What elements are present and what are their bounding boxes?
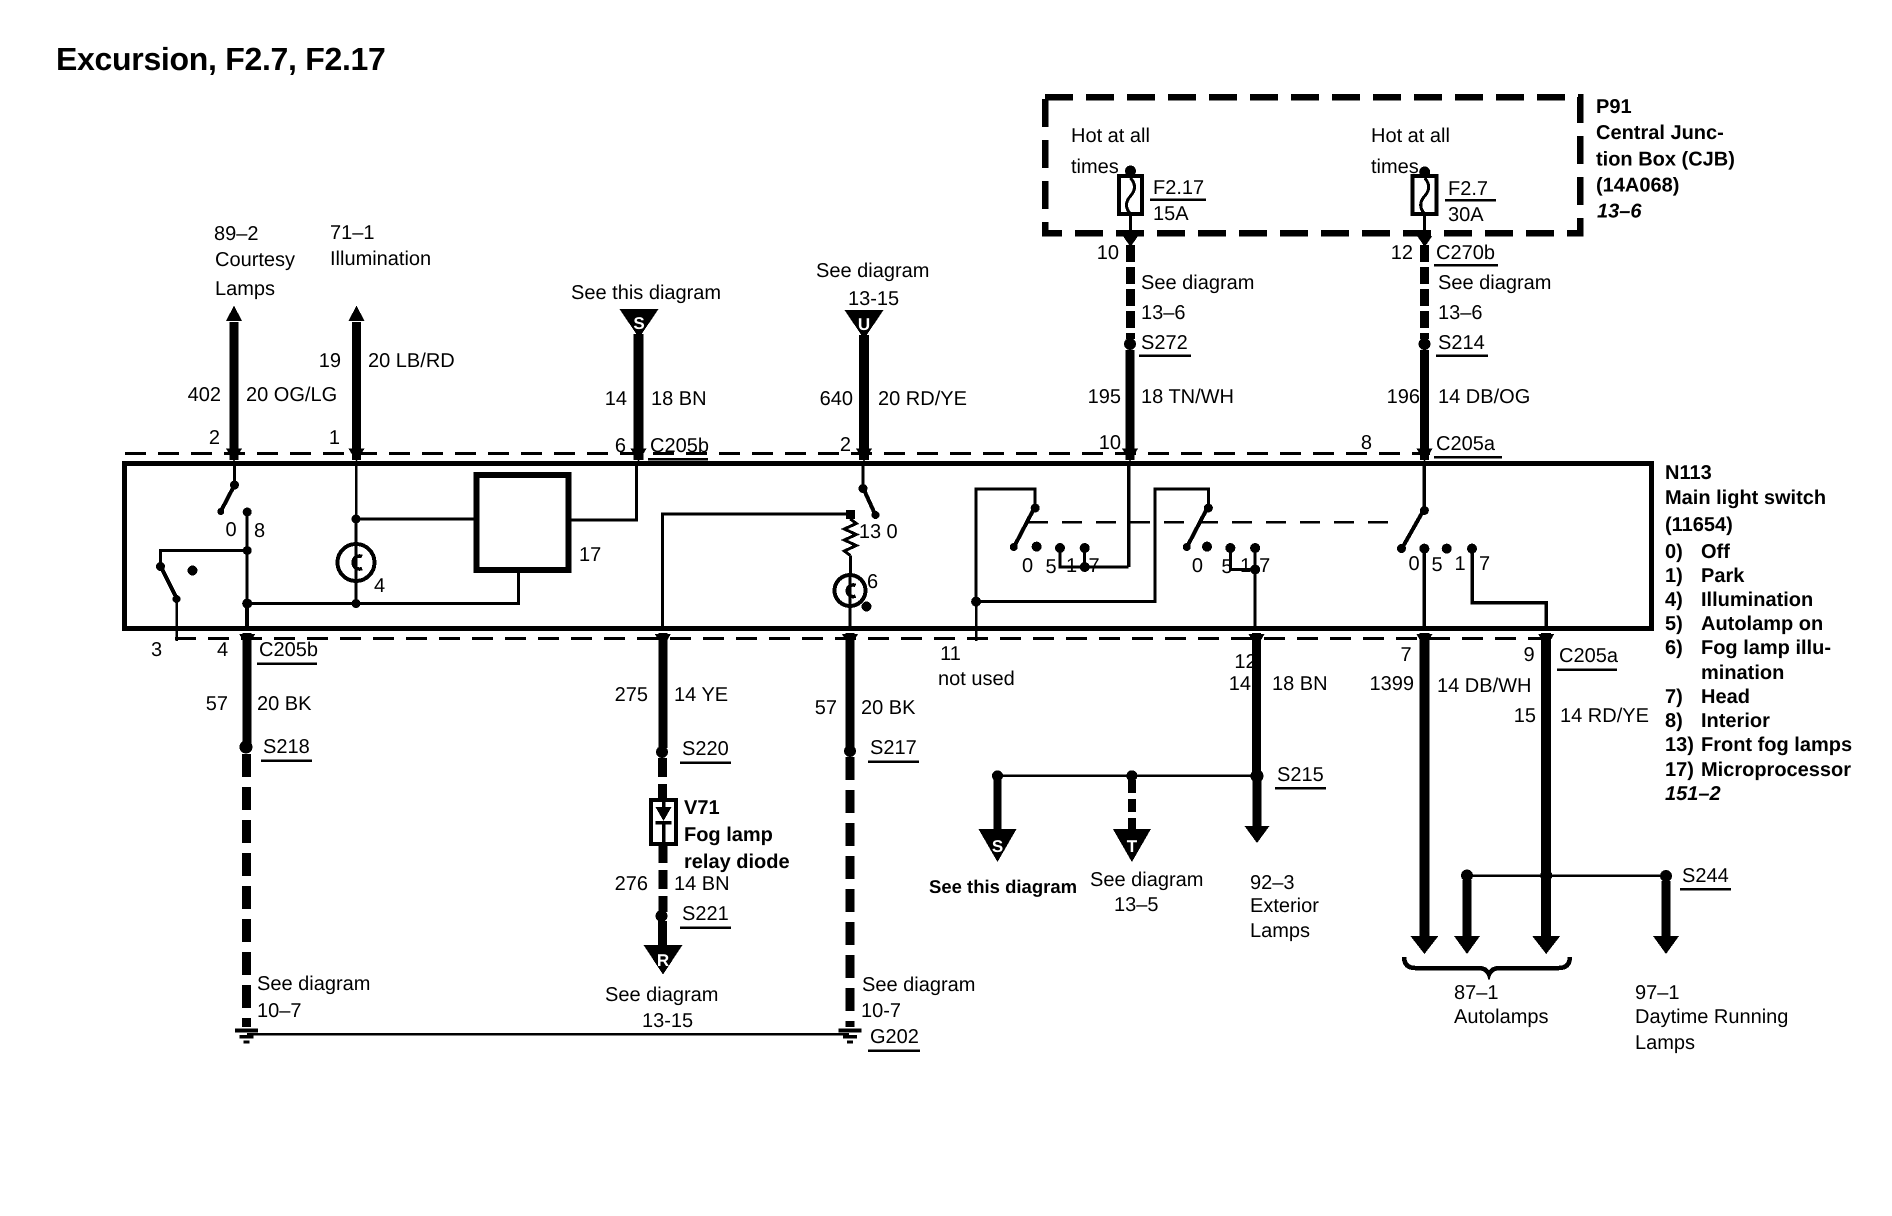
wire circuit 14 18 BN (pin 12) [1252, 633, 1261, 774]
wire switch1 feed left vertical [976, 489, 1035, 602]
svg-text:89–2: 89–2 [214, 223, 259, 245]
label See this diagram (top) [571, 282, 721, 304]
pin label 8 [1361, 432, 1372, 454]
pin label 11 not used [938, 643, 1015, 690]
arrowhead circuit 196 from CJB pin 12 [1417, 236, 1432, 247]
value label F2.7 30A [1445, 178, 1496, 226]
arrowhead pin 2 fog into N113 [856, 449, 872, 463]
wire contact 8 down [246, 512, 249, 604]
svg-text:S: S [633, 314, 644, 333]
svg-text:6: 6 [867, 571, 878, 593]
main light switch N113 outline [125, 464, 1652, 629]
value label 195 18 TN/WH [1088, 386, 1234, 408]
svg-text:7: 7 [1479, 553, 1490, 575]
wire switch2 contact bracket [1230, 548, 1255, 570]
svg-text:Autolamp on: Autolamp on [1701, 613, 1823, 635]
svg-text:relay diode: relay diode [684, 851, 790, 873]
connector label C205b (bottom) [257, 639, 318, 664]
pin label 1 [329, 427, 340, 449]
svg-text:S217: S217 [870, 737, 917, 759]
svg-text:Fog lamp illu-: Fog lamp illu- [1701, 637, 1831, 659]
svg-text:Central Junc-: Central Junc- [1596, 122, 1724, 144]
svg-text:F2.17: F2.17 [1153, 177, 1204, 199]
svg-text:F2.7: F2.7 [1448, 178, 1488, 200]
value label 14 18 BN [605, 388, 707, 410]
switch park lamps (pivot) [1010, 504, 1040, 552]
svg-text:10: 10 [1097, 242, 1119, 264]
node contacts switch 2 [1202, 542, 1260, 553]
label 71-1 Illumination [330, 222, 431, 270]
arrowhead pin 2 into N113 [226, 449, 242, 463]
junction switch2 bracket [1250, 565, 1260, 575]
svg-text:G202: G202 [870, 1026, 919, 1048]
ground G202 [839, 1026, 921, 1051]
dashed connector line C205 below N113 [175, 637, 1545, 640]
svg-text:Fog lamp: Fog lamp [684, 824, 773, 846]
svg-text:402: 402 [188, 384, 221, 406]
label See diagram 13-5 [1090, 869, 1203, 916]
arrow up courtesy lamps [226, 306, 242, 322]
svg-text:See diagram: See diagram [1090, 869, 1203, 891]
label 87-1 Autolamps [1454, 982, 1549, 1028]
arrow pin 9 down [1532, 936, 1560, 954]
svg-text:2: 2 [840, 434, 851, 456]
contact labels 0 5 1 7 (switch 2) [1192, 555, 1270, 578]
svg-text:Lamps: Lamps [1635, 1032, 1695, 1054]
contact label 0 8 (interior switch) [225, 519, 265, 542]
label N113 Main light switch legend [1665, 462, 1852, 805]
svg-text:57: 57 [206, 693, 228, 715]
wire pin 3 stub [175, 599, 178, 641]
svg-text:Excursion, F2.7, F2.17: Excursion, F2.7, F2.17 [56, 41, 386, 77]
svg-text:14 YE: 14 YE [674, 684, 728, 706]
svg-text:times: times [1071, 156, 1119, 178]
value label 275 14 YE [615, 684, 729, 706]
svg-text:20 RD/YE: 20 RD/YE [878, 388, 967, 410]
label 97-1 Daytime Running Lamps [1635, 982, 1788, 1054]
svg-text:1: 1 [1240, 555, 1251, 577]
dashed connector line C205 above N113 [125, 452, 1430, 455]
svg-text:See diagram: See diagram [1438, 272, 1551, 294]
svg-text:Main light switch: Main light switch [1665, 487, 1826, 509]
svg-text:R: R [657, 951, 669, 970]
wire circuit 195 18 TN/WH (dashed segment above S272) [1126, 245, 1135, 339]
svg-text:14 RD/YE: 14 RD/YE [1560, 705, 1649, 727]
value label 402 20 OG/LG [188, 384, 338, 406]
svg-text:18 BN: 18 BN [1272, 673, 1328, 695]
svg-text:20 BK: 20 BK [257, 693, 312, 715]
pin label 10 (CJB side) [1097, 242, 1119, 264]
svg-text:10: 10 [1099, 432, 1121, 454]
value label 640 20 RD/YE [820, 388, 967, 410]
wire contact 7 to pin 9 [1472, 549, 1546, 630]
svg-text:(11654): (11654) [1665, 514, 1733, 536]
lamp illumination (symbol 4) [338, 519, 375, 604]
svg-text:151–2: 151–2 [1665, 783, 1721, 805]
wire bus to microprocessor bottom [247, 570, 519, 604]
svg-text:1): 1) [1665, 565, 1683, 587]
wire fog illumination feed [663, 514, 846, 630]
splice S220 [656, 738, 731, 763]
svg-text:S244: S244 [1682, 865, 1729, 887]
svg-text:10-7: 10-7 [861, 1000, 901, 1022]
svg-text:19: 19 [319, 350, 341, 372]
junction contact 8 / battery saver branch [243, 546, 252, 555]
svg-text:87–1: 87–1 [1454, 982, 1499, 1004]
svg-text:(14A068): (14A068) [1596, 175, 1679, 197]
wire splice rail S244 [1467, 874, 1666, 877]
svg-text:See diagram: See diagram [605, 984, 718, 1006]
wire S220 to diode [658, 758, 667, 800]
pin label 6 / connector C205b [615, 435, 709, 459]
pin label 12 (CJB side) [1391, 242, 1413, 264]
pin label 10 (switch side) [1099, 432, 1121, 454]
switch head lamps (pivot pin 8) [1397, 506, 1429, 553]
connector label C270b [1434, 242, 1498, 265]
svg-text:C205a: C205a [1559, 645, 1619, 667]
svg-text:13): 13) [1665, 734, 1694, 756]
wire circuit 15 14 RD/YE (pin 9) [1541, 633, 1551, 938]
wire pin 4 inside [245, 604, 249, 631]
svg-text:12: 12 [1391, 242, 1413, 264]
svg-text:S215: S215 [1277, 764, 1324, 786]
splice S218 [240, 736, 313, 761]
wire circuit 640 20 RD/YE [859, 335, 869, 460]
svg-text:S272: S272 [1141, 332, 1188, 354]
junction switch1 bracket [1080, 562, 1090, 572]
connector label C205a (top) [1434, 433, 1502, 457]
svg-text:9: 9 [1523, 644, 1534, 666]
wire circuit 57 20 BK (pin 4) [243, 633, 252, 743]
label Hot at all times (left) [1071, 125, 1150, 178]
splice S217 [844, 737, 919, 762]
svg-text:275: 275 [615, 684, 648, 706]
svg-text:7: 7 [1400, 644, 1411, 666]
splice S244 [1660, 865, 1731, 889]
svg-text:See diagram: See diagram [862, 974, 975, 996]
label See diagram 10-7 (right) [861, 974, 975, 1022]
node feed dot fuse F2.17 [1125, 166, 1136, 177]
node S244 left dot [1461, 870, 1473, 882]
wire resistor to lamp [849, 556, 852, 577]
svg-text:Lamps: Lamps [215, 278, 275, 300]
svg-text:13–6: 13–6 [1597, 201, 1642, 223]
arrowhead circuit 195 from CJB pin 10 [1123, 236, 1138, 247]
pin label 2 (courtesy) [209, 427, 220, 449]
wire switch1 contact bracket [1060, 548, 1129, 567]
svg-text:8: 8 [254, 520, 265, 542]
wire circuit 402 20 OG/LG [230, 322, 239, 460]
label Hot at all times (right) [1371, 125, 1450, 178]
svg-text:tion Box (CJB): tion Box (CJB) [1596, 149, 1735, 171]
wire S221 to connector R [658, 921, 667, 948]
arrowhead pin 4 out [239, 634, 255, 648]
arrow exterior lamps [1245, 826, 1270, 843]
svg-text:71–1: 71–1 [330, 222, 375, 244]
svg-text:13-15: 13-15 [848, 288, 899, 310]
svg-text:4: 4 [374, 575, 385, 597]
svg-text:S220: S220 [682, 738, 729, 760]
wire circuit 57 20 BK (pin 6) [846, 633, 855, 747]
wire S215 to exterior lamps arrow [1253, 780, 1262, 828]
switch front fog lamps (pivot pin 2) [859, 484, 880, 519]
svg-text:3: 3 [151, 639, 162, 661]
arrowhead pin 10 into N113 [1122, 449, 1138, 463]
svg-text:14 BN: 14 BN [674, 873, 730, 895]
value label 57 20 BK (pin 4) [206, 693, 312, 715]
node lamp lower right dot [862, 602, 872, 612]
pin label 2 (fog) [840, 434, 851, 456]
arrowhead pin 8 into N113 [1417, 449, 1433, 463]
svg-text:0: 0 [1192, 555, 1203, 577]
svg-text:2: 2 [209, 427, 220, 449]
svg-text:17: 17 [579, 544, 601, 566]
pin label 4 [217, 639, 228, 661]
connector label C205a (bottom) [1557, 645, 1619, 670]
value label 19 20 LB/RD [319, 350, 455, 372]
svg-text:92–3: 92–3 [1250, 872, 1295, 894]
switch battery saver (pivot) [156, 562, 181, 603]
svg-text:14 DB/OG: 14 DB/OG [1438, 386, 1530, 408]
svg-text:Hot at all: Hot at all [1071, 125, 1150, 147]
wire circuit 19 20 LB/RD [352, 322, 361, 460]
central junction box P91 dashed outline [1045, 97, 1580, 233]
label 4 (lamp) [374, 575, 385, 597]
arrowhead pin 9 out [1538, 634, 1554, 648]
svg-text:8): 8) [1665, 710, 1683, 732]
splice S215 [1251, 764, 1327, 788]
wire branch to interior switch pivot [161, 551, 248, 565]
value label 57 20 BK (pin 6) [815, 697, 916, 719]
svg-text:Off: Off [1701, 541, 1730, 563]
arrowhead pin 5 out [655, 634, 671, 648]
label See diagram 13-15 (top) [816, 260, 929, 310]
svg-text:V71: V71 [684, 797, 720, 819]
switch exterior lamps (pivot) [1183, 504, 1213, 552]
wire pin 2 stub inside N113 [233, 464, 236, 482]
arrow daytime running down [1653, 936, 1679, 954]
svg-text:6): 6) [1665, 637, 1683, 659]
pin label 9 [1523, 644, 1534, 666]
contact labels 0 5 1 7 (switch 1) [1022, 555, 1100, 578]
node S244 middle dot (on pin 9 wire) [1540, 870, 1552, 882]
arrowhead pin 6 into N113 [631, 449, 647, 463]
svg-text:S221: S221 [682, 903, 729, 925]
wire illumination node to microprocessor [356, 518, 476, 521]
svg-text:0: 0 [886, 521, 897, 543]
wire pin 11 stub [975, 602, 978, 641]
label V71 Fog lamp relay diode [684, 797, 790, 873]
value label F2.17 15A [1150, 177, 1206, 225]
svg-text:Courtesy: Courtesy [215, 249, 295, 271]
wire circuit 14 18 BN [634, 334, 644, 460]
arrowhead pin 6 out [842, 634, 858, 648]
value label 276 14 BN [615, 873, 730, 895]
wire pin 4 dashed to ground [242, 754, 251, 1027]
node resistor top [846, 510, 855, 519]
svg-text:0: 0 [225, 519, 236, 541]
svg-text:17): 17) [1665, 759, 1694, 781]
svg-text:13: 13 [859, 521, 881, 543]
label 17 [579, 544, 601, 566]
wire switch1 output bus [976, 489, 1208, 602]
svg-text:0: 0 [1408, 553, 1419, 575]
wire pin 1 stub inside N113 [355, 464, 358, 519]
wire circuit 275 14 YE (pin 5) [658, 633, 667, 748]
arrowhead pin 7 out [1416, 634, 1432, 648]
node S dot [992, 770, 1003, 781]
label See this diagram (bottom) [929, 876, 1077, 897]
svg-text:14: 14 [1229, 673, 1251, 695]
node T dot [1126, 770, 1137, 781]
svg-text:S218: S218 [263, 736, 310, 758]
label See diagram 13-6 (left) [1141, 272, 1254, 324]
wire to connector S [994, 780, 1002, 831]
splice S272 [1124, 332, 1191, 356]
svg-text:N113: N113 [1665, 462, 1712, 484]
svg-text:97–1: 97–1 [1635, 982, 1680, 1004]
svg-text:Head: Head [1701, 686, 1750, 708]
node contact 8 [243, 508, 252, 517]
arrowhead pin 1 into N113 [349, 449, 365, 463]
svg-text:C205a: C205a [1436, 433, 1496, 455]
fuse F2.7 [1413, 176, 1437, 214]
svg-text:10–7: 10–7 [257, 1000, 302, 1022]
label See diagram 13-15 (bottom) [605, 984, 718, 1032]
wire ground rail [247, 1033, 849, 1036]
splice S221 [656, 903, 732, 928]
diode V71 fog lamp relay diode [651, 800, 676, 844]
splice S214 [1419, 332, 1489, 356]
off-page connector S (bottom) [979, 829, 1017, 862]
svg-text:See diagram: See diagram [1141, 272, 1254, 294]
switch interior lamps (pivot pin 2) [217, 481, 239, 516]
svg-text:S: S [992, 837, 1003, 856]
contact label 13 0 (fog switch) [859, 521, 898, 543]
svg-text:T: T [1127, 837, 1138, 856]
node feed dot fuse F2.7 [1419, 167, 1430, 178]
label See diagram 10-7 (left) [257, 973, 370, 1022]
svg-text:Front fog lamps: Front fog lamps [1701, 734, 1852, 756]
svg-text:5: 5 [1431, 554, 1442, 576]
svg-text:11: 11 [940, 643, 961, 665]
wire microprocessor to pin 6 [569, 464, 637, 520]
title [56, 41, 386, 77]
svg-text:195: 195 [1088, 386, 1121, 408]
svg-text:7): 7) [1665, 686, 1683, 708]
arrow up illumination [349, 306, 365, 322]
junction lamp bottom node [352, 599, 361, 608]
wire circuit 196 14 DB/OG (dashed segment above S214) [1420, 245, 1429, 339]
wire splice rail S215 [998, 775, 1257, 778]
junction illumination node [352, 515, 361, 524]
svg-text:Illumination: Illumination [1701, 589, 1813, 611]
svg-text:0: 0 [1022, 555, 1033, 577]
svg-text:4): 4) [1665, 589, 1683, 611]
wire circuit 1399 14 DB/WH (pin 7) [1419, 633, 1429, 938]
junction switch1 output [971, 597, 981, 607]
wire pin 7 inside [1423, 549, 1427, 630]
node contacts switch 3 [1419, 544, 1477, 554]
pin label 3 [151, 639, 162, 661]
resistor fog lamp illumination [844, 519, 856, 556]
svg-text:C205b: C205b [259, 639, 318, 661]
wire fuse F2.17 to CJB edge [1129, 214, 1132, 233]
svg-text:Lamps: Lamps [1250, 920, 1310, 942]
svg-text:20 OG/LG: 20 OG/LG [246, 384, 337, 406]
arrow autolamp branch down [1454, 936, 1480, 954]
svg-text:Interior: Interior [1701, 710, 1770, 732]
ground (left) [235, 1031, 258, 1043]
svg-text:1399: 1399 [1370, 673, 1415, 695]
contact labels 0 5 1 7 (switch 3) [1408, 553, 1490, 576]
svg-text:See diagram: See diagram [257, 973, 370, 995]
svg-text:13–5: 13–5 [1114, 894, 1159, 916]
svg-text:7: 7 [1259, 555, 1270, 577]
wire circuit 196 below S214 [1420, 350, 1429, 460]
svg-text:8: 8 [1361, 432, 1372, 454]
label See diagram 13-6 (right) [1438, 272, 1551, 324]
wire pin 2 fog stub inside N113 [862, 464, 865, 485]
wire fuse F2.7 to CJB edge [1423, 214, 1426, 233]
microprocessor box 17 [477, 475, 569, 570]
svg-text:20 BK: 20 BK [861, 697, 916, 719]
svg-text:15: 15 [1514, 705, 1536, 727]
value label 15 14 RD/YE [1514, 705, 1649, 727]
svg-text:not used: not used [938, 668, 1015, 690]
svg-text:57: 57 [815, 697, 837, 719]
svg-text:Hot at all: Hot at all [1371, 125, 1450, 147]
svg-text:mination: mination [1701, 662, 1784, 684]
svg-text:See this diagram: See this diagram [929, 876, 1077, 897]
svg-text:15A: 15A [1153, 203, 1189, 225]
fuse F2.17 [1119, 176, 1142, 214]
wire daytime running branch [1662, 881, 1671, 938]
svg-text:13–6: 13–6 [1438, 302, 1483, 324]
pin label 12 [1234, 651, 1256, 673]
svg-text:1: 1 [329, 427, 340, 449]
off-page connector U (top) [845, 310, 884, 339]
svg-text:P91: P91 [1596, 96, 1632, 118]
wire diode to S221 [659, 844, 668, 912]
svg-text:Park: Park [1701, 565, 1745, 587]
svg-text:640: 640 [820, 388, 853, 410]
svg-text:See this diagram: See this diagram [571, 282, 721, 304]
wire autolamp branch [1463, 880, 1472, 938]
linkage dashed (switch gang) [1028, 521, 1400, 524]
wire pin 8 stub inside N113 [1423, 464, 1427, 507]
wire pin 10 inside N113 [1127, 464, 1131, 567]
svg-text:Autolamps: Autolamps [1454, 1006, 1549, 1028]
label P91 Central Junction Box [1596, 96, 1735, 223]
lamp fog illumination (symbol 6) [835, 575, 866, 630]
svg-text:30A: 30A [1448, 204, 1484, 226]
svg-text:4: 4 [217, 639, 228, 661]
svg-text:13-15: 13-15 [642, 1010, 693, 1032]
node contact (floating) [188, 566, 198, 576]
svg-text:0): 0) [1665, 541, 1683, 563]
svg-text:14: 14 [605, 388, 627, 410]
svg-text:Microprocessor: Microprocessor [1701, 759, 1851, 781]
svg-text:13–6: 13–6 [1141, 302, 1186, 324]
svg-text:S214: S214 [1438, 332, 1485, 354]
off-page connector R [644, 945, 683, 975]
svg-text:5: 5 [1045, 556, 1056, 578]
svg-text:U: U [858, 315, 870, 334]
off-page connector T [1113, 829, 1151, 862]
pin label 7 [1400, 644, 1411, 666]
arrowhead pin 12 out [1249, 634, 1265, 648]
